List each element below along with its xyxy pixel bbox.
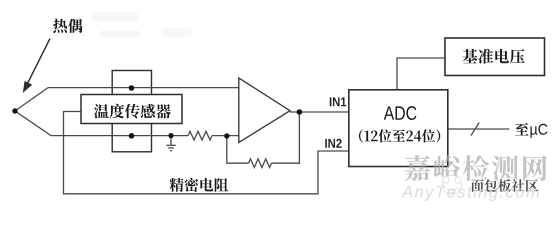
watermark: 嘉峪检测网 xyxy=(404,155,546,181)
watermark: 面包板社区 xyxy=(471,179,538,192)
label: IN2 xyxy=(325,139,341,148)
thermocouple pointer arrow xyxy=(28,39,51,84)
wire: top rail to op-amp non-inverting input xyxy=(48,87,239,89)
wire: thermocouple upper leg xyxy=(15,88,48,111)
label: IN1 xyxy=(330,97,347,106)
wire: resistor to op-amp inverting input xyxy=(212,135,239,137)
temperature sensor box xyxy=(81,95,182,124)
wire: ADC output bus to microcontroller xyxy=(448,128,510,130)
wire: ADC to reference box xyxy=(397,58,445,90)
ADC block xyxy=(349,90,448,167)
ghost watermark remnants xyxy=(92,12,192,38)
node: thermistor top junction xyxy=(129,85,135,91)
op-amp U1 xyxy=(239,78,290,143)
label: ADC xyxy=(384,106,417,120)
resistor R2 (feedback) xyxy=(249,159,272,168)
reference voltage block xyxy=(445,38,545,76)
ground xyxy=(166,136,175,151)
wire: feedback from inverting node down xyxy=(227,136,249,163)
label: 热偶 (thermocouple) xyxy=(53,19,83,33)
node: thermistor bottom junction xyxy=(129,133,135,139)
node: ground junction xyxy=(168,133,173,138)
label: 精密电阻 (precision resistor) xyxy=(169,178,228,192)
bus slash tick xyxy=(471,123,479,136)
label: （12位至24位） xyxy=(359,129,440,142)
resistor R1 (precision resistor) xyxy=(188,131,212,140)
node: thermocouple junction xyxy=(12,108,17,113)
wire: lower rail to precision resistor xyxy=(51,135,188,137)
wire: feedback resistor to op-amp output xyxy=(272,112,300,163)
thermistor element (vertical rect) xyxy=(112,71,151,152)
wire: sensor box left lead down to bottom return rail and up to IN2 xyxy=(64,112,349,194)
wire: thermocouple lower leg xyxy=(15,111,51,136)
label: 基准电压 (reference voltage) xyxy=(462,49,524,64)
label: 至µC (to microcontroller) xyxy=(515,123,529,136)
node: op-amp output junction xyxy=(297,109,303,115)
watermark: AnyTesting.com xyxy=(401,185,539,200)
node: inverting input junction xyxy=(224,133,229,138)
watermark icon (breadboard community logo) xyxy=(443,176,462,195)
label: 温度传感器 (temperature sensor) xyxy=(94,104,171,119)
wire: op-amp output to ADC IN1 xyxy=(290,111,349,113)
